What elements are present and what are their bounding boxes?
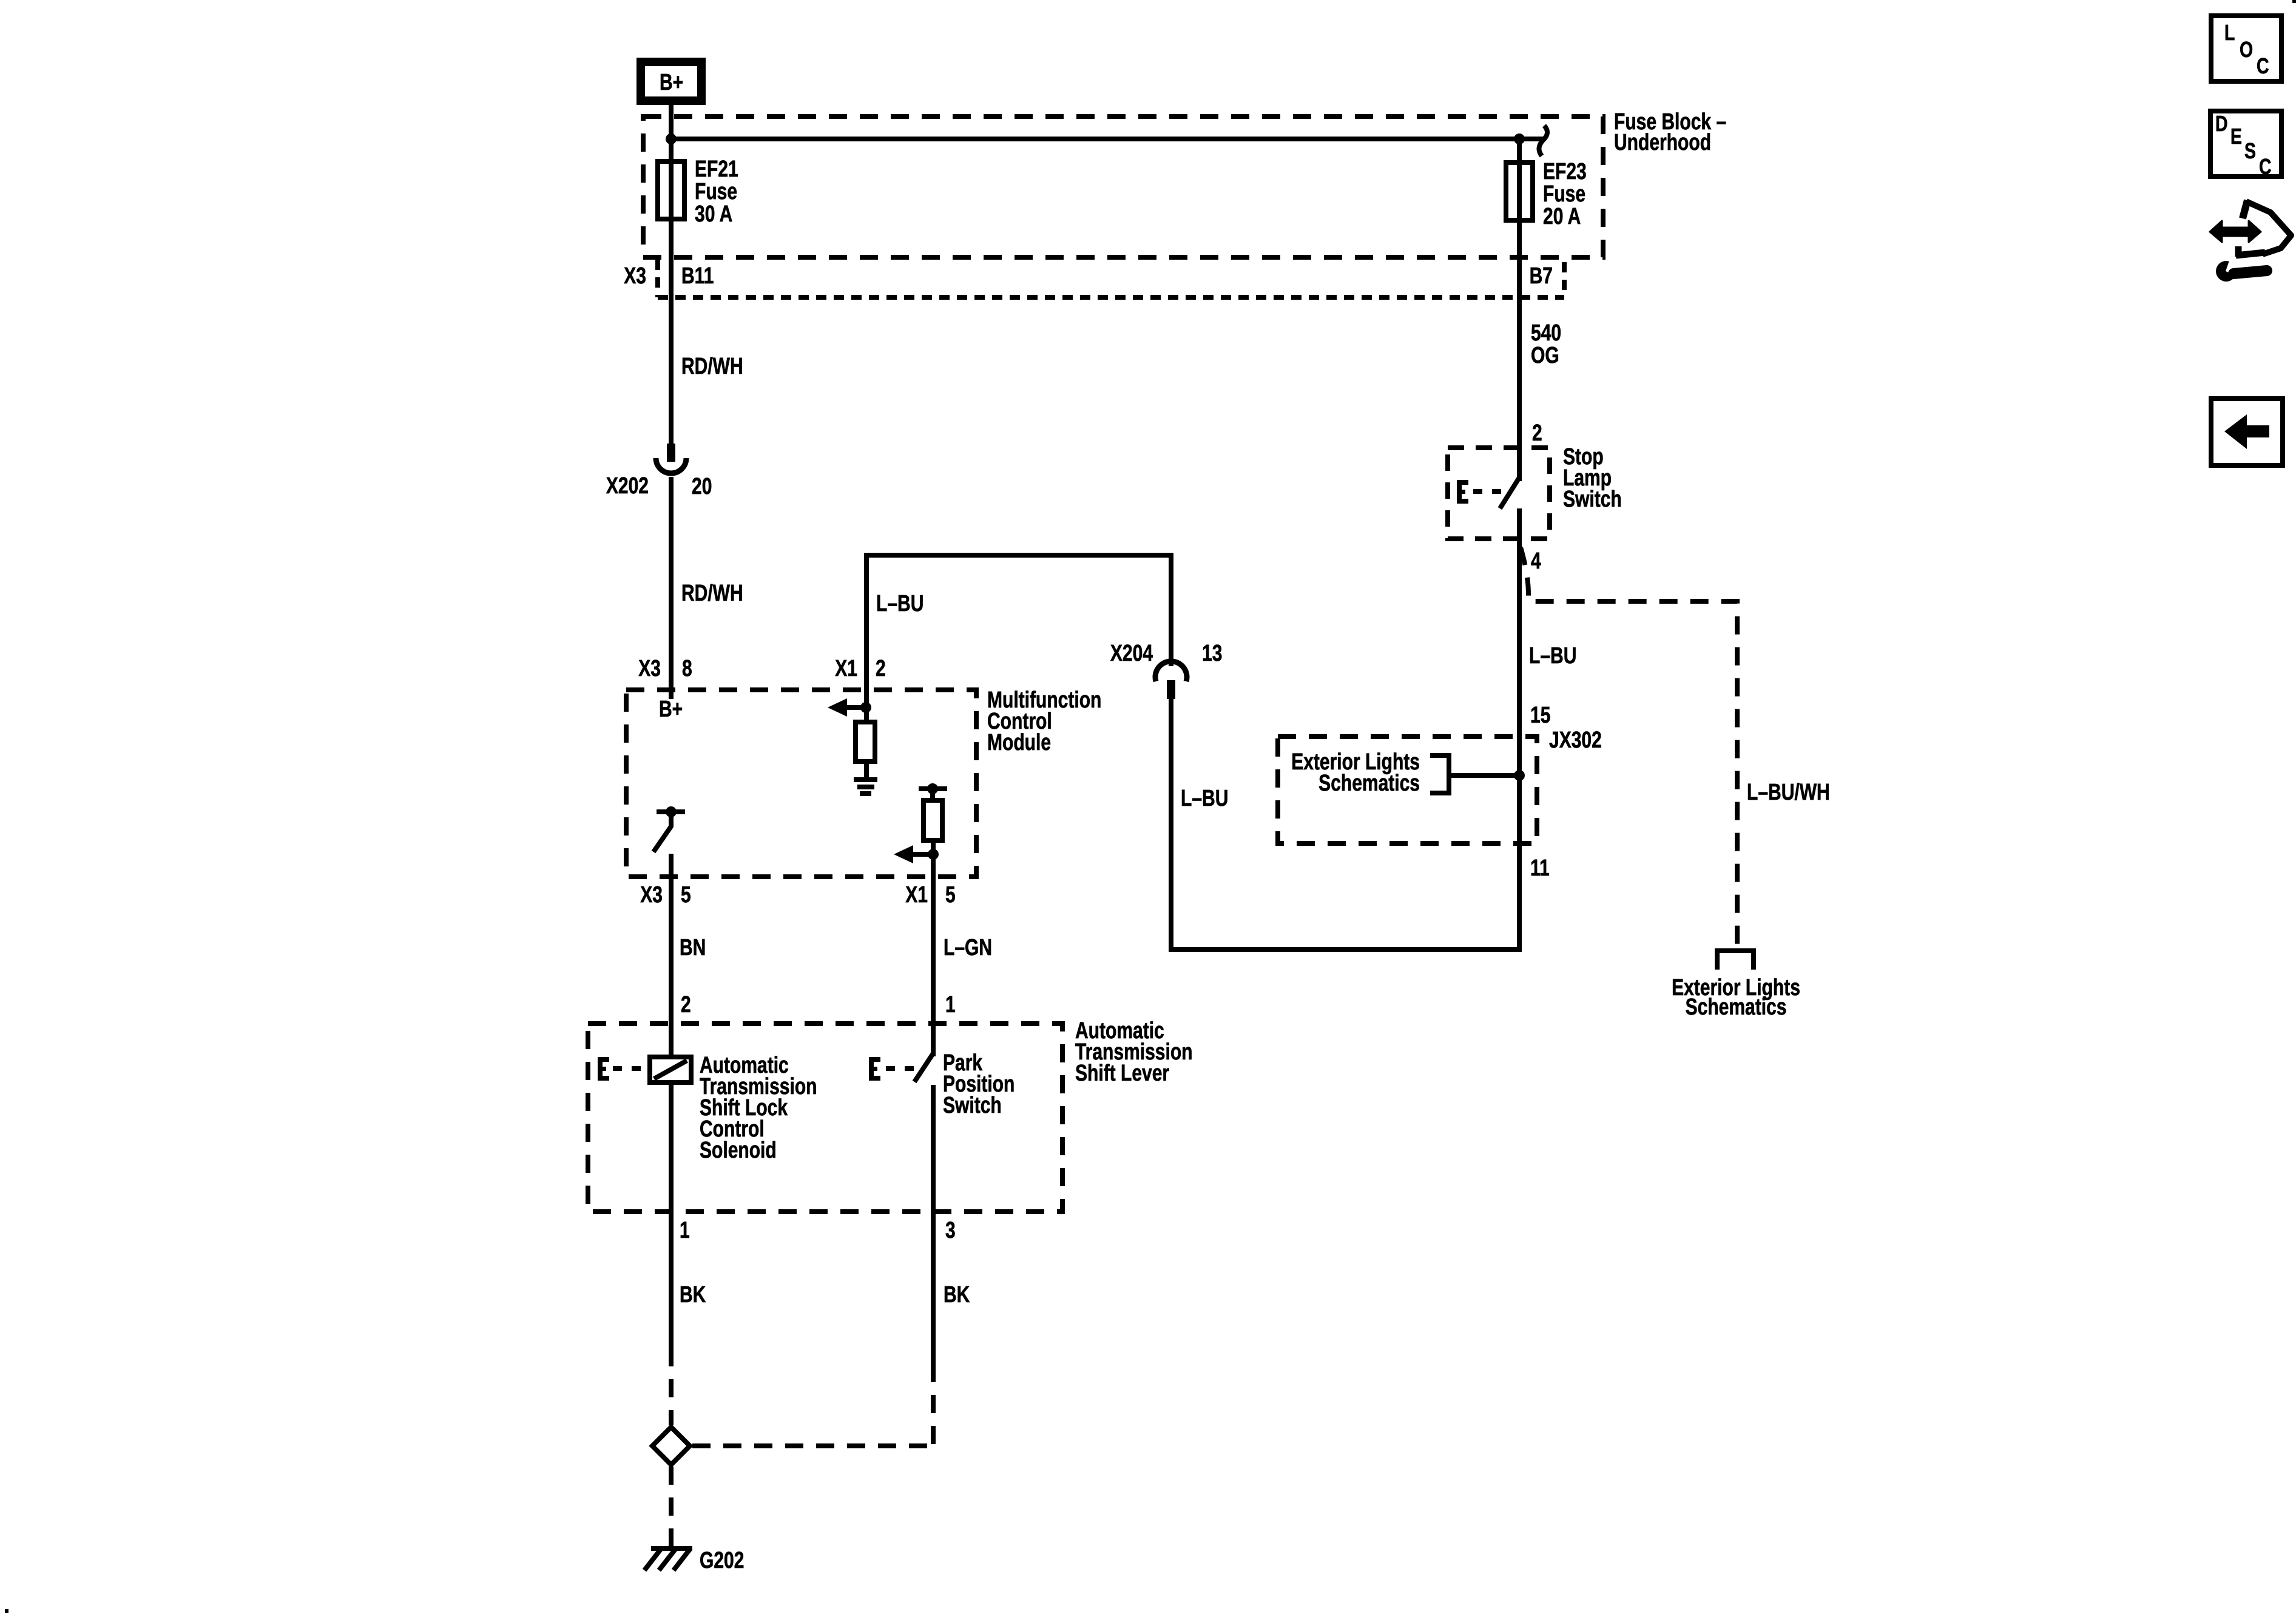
svg-text:D: D: [2215, 112, 2228, 136]
svg-text:20 A: 20 A: [1543, 204, 1581, 229]
svg-text:3: 3: [945, 1218, 956, 1243]
svg-text:5: 5: [945, 882, 956, 908]
svg-text:Fuse: Fuse: [695, 179, 737, 204]
svg-text:30 A: 30 A: [695, 201, 732, 227]
svg-text:O: O: [2240, 38, 2253, 62]
svg-text:L: L: [2224, 21, 2235, 45]
svg-text:5: 5: [681, 882, 691, 908]
svg-text:BK: BK: [944, 1282, 970, 1308]
svg-text:13: 13: [1202, 641, 1222, 666]
svg-text:L–BU: L–BU: [876, 591, 923, 616]
svg-text:RD/WH: RD/WH: [681, 354, 743, 379]
svg-text:X3: X3: [638, 656, 661, 681]
svg-text:Underhood: Underhood: [1614, 130, 1711, 155]
svg-text:L–BU: L–BU: [1181, 786, 1228, 811]
svg-text:Module: Module: [987, 730, 1051, 755]
svg-text:8: 8: [682, 656, 692, 681]
svg-text:15: 15: [1530, 703, 1550, 728]
svg-text:EF23: EF23: [1543, 159, 1587, 184]
svg-text:Schematics: Schematics: [1319, 771, 1420, 796]
svg-text:X3: X3: [640, 882, 663, 908]
svg-text:20: 20: [692, 474, 712, 499]
svg-text:Fuse: Fuse: [1543, 181, 1585, 207]
svg-text:BN: BN: [680, 935, 706, 960]
svg-text:Switch: Switch: [1563, 487, 1622, 512]
svg-text:RD/WH: RD/WH: [681, 581, 743, 606]
svg-text:L–GN: L–GN: [944, 935, 992, 960]
svg-text:B11: B11: [681, 263, 714, 289]
svg-text:B+: B+: [659, 697, 683, 722]
svg-text:1: 1: [945, 992, 956, 1018]
svg-text:X1: X1: [905, 882, 928, 908]
svg-text:Schematics: Schematics: [1686, 994, 1787, 1020]
svg-text:C: C: [2257, 54, 2269, 78]
svg-text:BK: BK: [680, 1282, 706, 1308]
svg-text:X204: X204: [1110, 641, 1153, 666]
svg-text:2: 2: [681, 992, 691, 1018]
svg-text:C: C: [2259, 155, 2272, 179]
svg-text:540: 540: [1531, 320, 1561, 346]
svg-text:B7: B7: [1530, 263, 1553, 289]
svg-text:1: 1: [680, 1218, 690, 1243]
svg-text:E: E: [2230, 124, 2242, 149]
svg-text:X3: X3: [624, 263, 646, 289]
svg-text:X1: X1: [835, 656, 857, 681]
svg-text:2: 2: [876, 656, 886, 681]
svg-text:EF21: EF21: [695, 157, 738, 182]
svg-text:G202: G202: [700, 1548, 744, 1573]
svg-text:2: 2: [1532, 420, 1542, 446]
svg-text:X202: X202: [606, 473, 649, 499]
svg-text:Shift Lever: Shift Lever: [1075, 1061, 1169, 1086]
svg-text:L–BU/WH: L–BU/WH: [1747, 780, 1830, 805]
svg-text:L–BU: L–BU: [1529, 643, 1576, 669]
svg-text:S: S: [2244, 139, 2256, 163]
svg-text:Switch: Switch: [943, 1093, 1002, 1118]
svg-text:JX302: JX302: [1549, 727, 1602, 753]
svg-text:Solenoid: Solenoid: [700, 1138, 777, 1163]
svg-text:OG: OG: [1531, 343, 1559, 368]
svg-text:B+: B+: [660, 70, 683, 95]
svg-text:4: 4: [1531, 549, 1541, 574]
svg-text:11: 11: [1530, 856, 1550, 881]
